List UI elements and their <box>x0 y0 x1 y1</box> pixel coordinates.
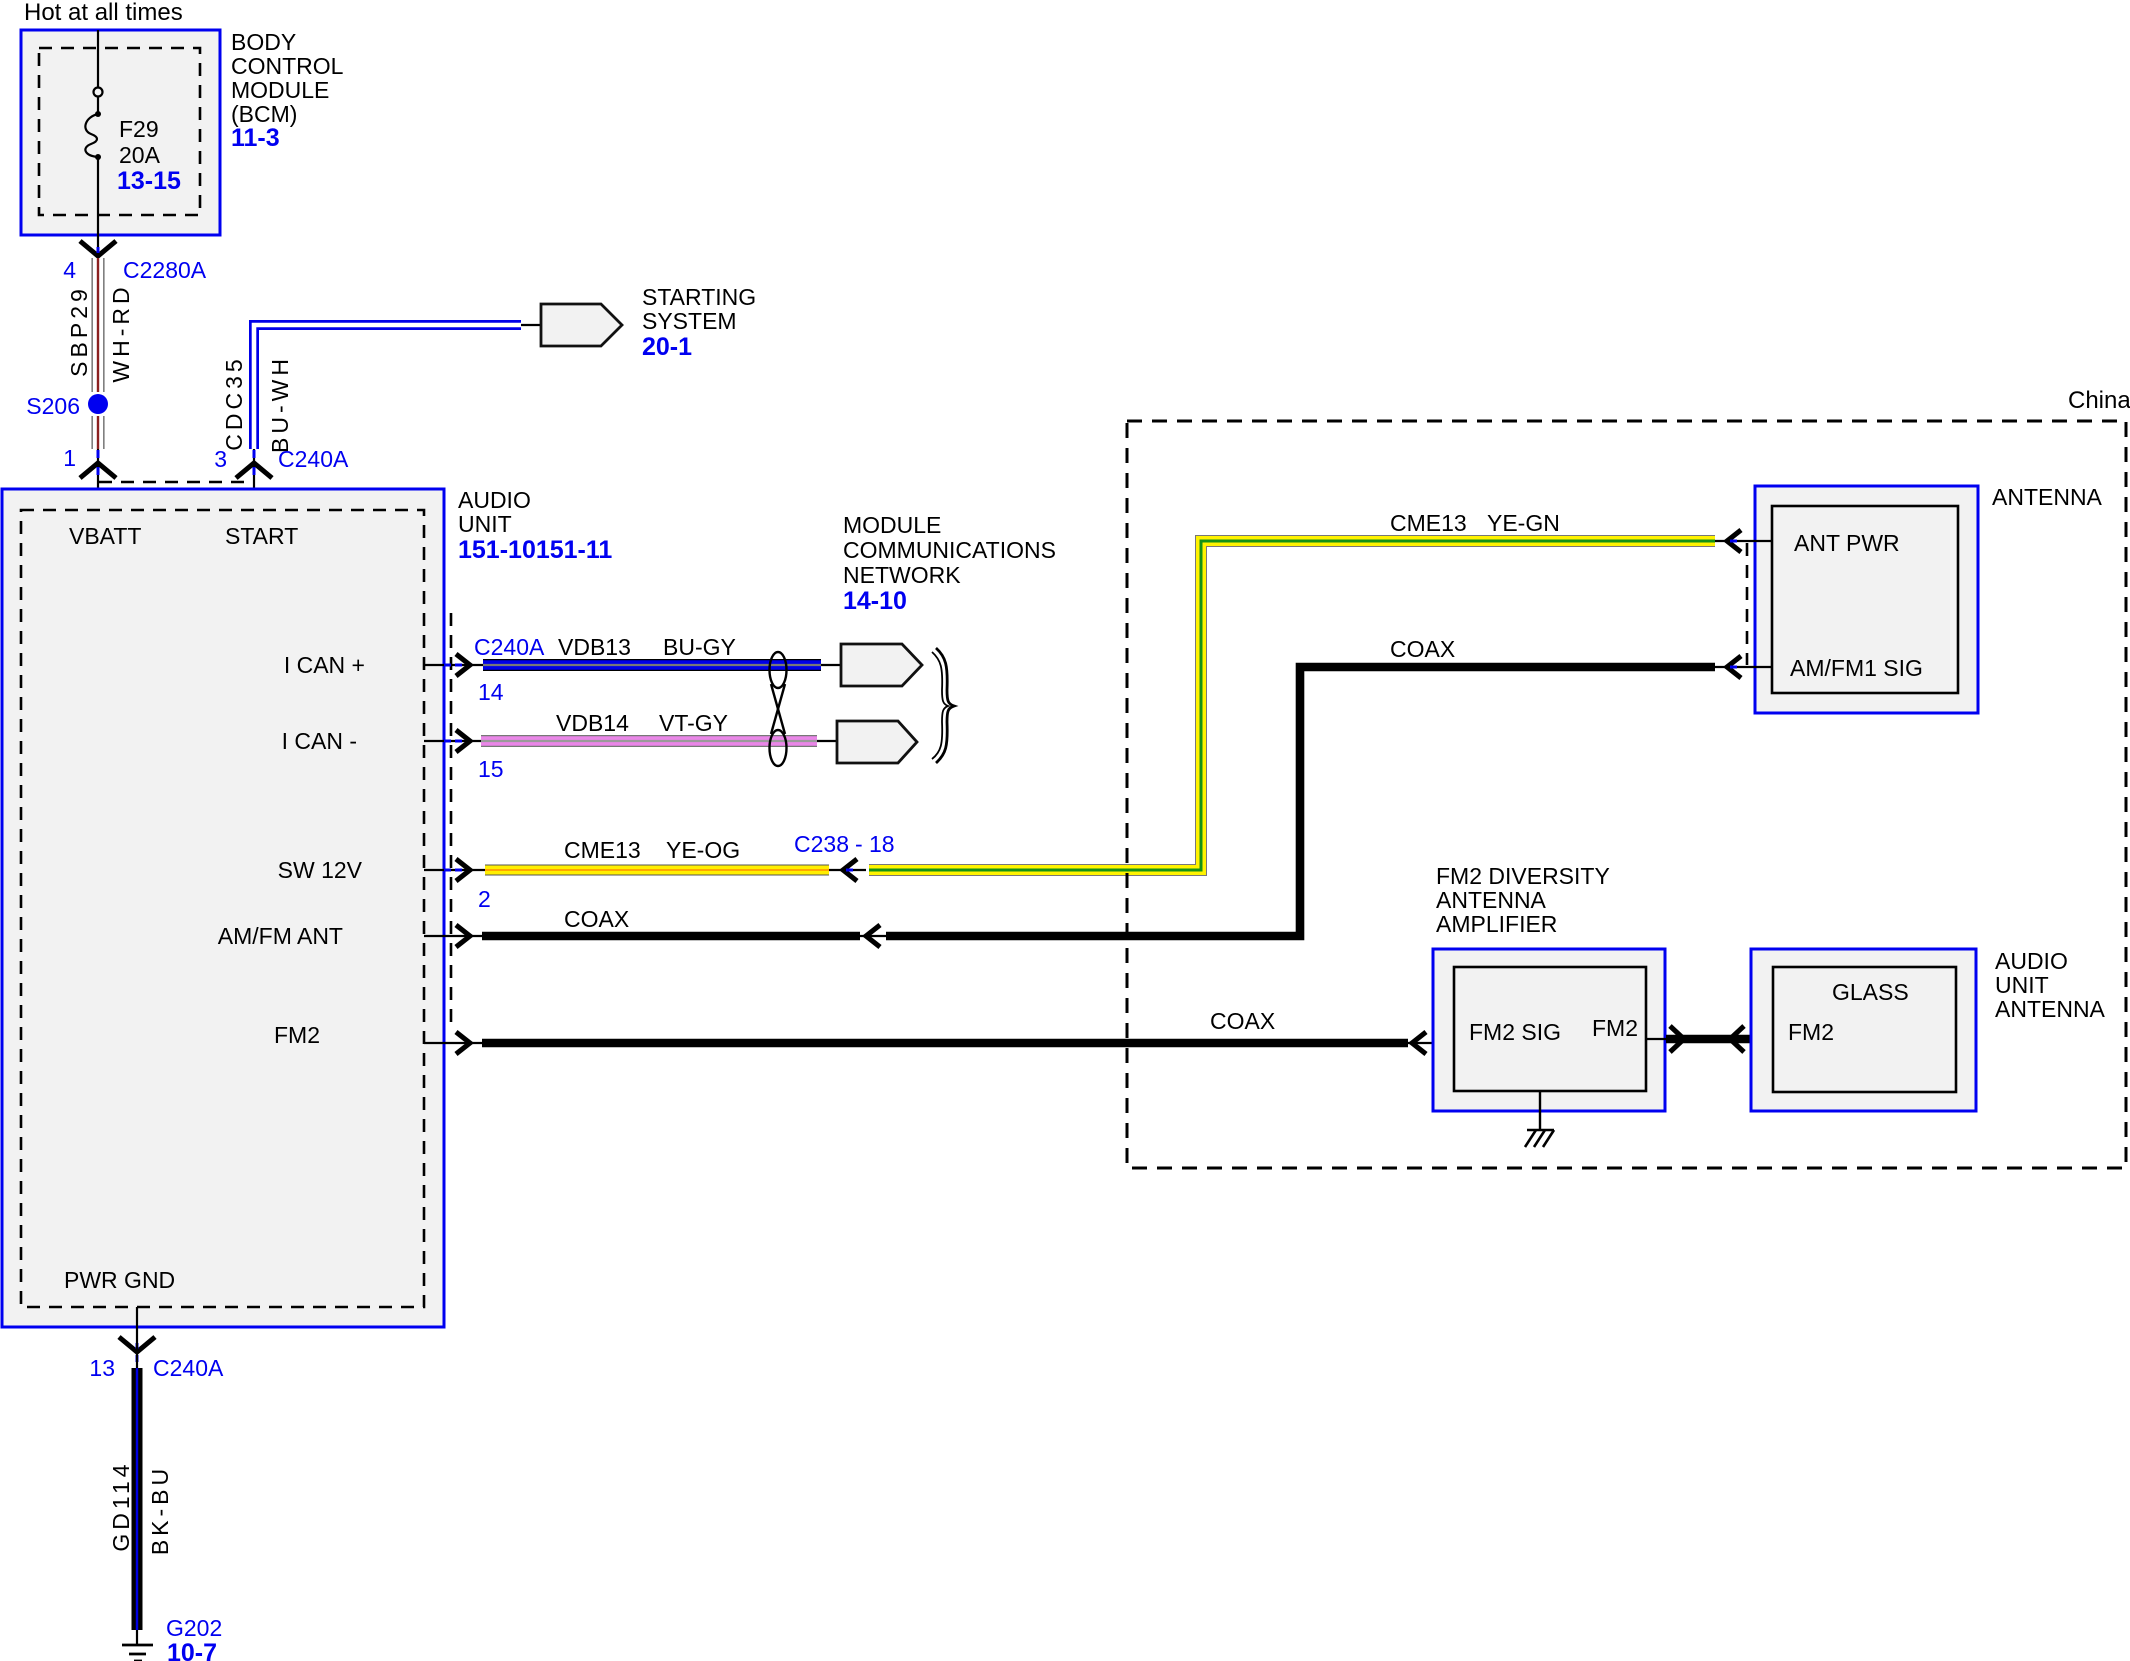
svg-text:MODULE: MODULE <box>231 77 329 103</box>
svg-text:FM2: FM2 <box>1788 1019 1834 1045</box>
connector C2280A arrow (down) <box>80 241 116 266</box>
svg-text:14: 14 <box>478 679 504 705</box>
svg-text:I CAN -: I CAN - <box>282 728 357 754</box>
wire CME13 YE-OG (yellow/orange) <box>485 865 829 876</box>
wire: hot feed into BCM <box>97 30 99 88</box>
svg-text:I CAN +: I CAN + <box>284 652 365 678</box>
svg-text:S206: S206 <box>26 393 80 419</box>
wire COAX from AM/FM ANT <box>482 932 860 941</box>
svg-text:VT-GY: VT-GY <box>659 710 728 736</box>
svg-text:3: 3 <box>214 446 227 472</box>
connector C240A pin 13 arrow (down) <box>119 1337 155 1368</box>
junction arrow C238-18 <box>829 859 866 881</box>
audio unit antenna (glass) box <box>1751 949 1976 1111</box>
svg-text:VDB13: VDB13 <box>558 634 631 660</box>
svg-text:20-1: 20-1 <box>642 333 692 361</box>
audio unit box <box>2 489 444 1327</box>
svg-text:13-15: 13-15 <box>117 167 181 195</box>
ground symbol G202 <box>122 1645 153 1661</box>
pin stub SW 12V with arrow <box>424 859 485 881</box>
labels CME13 YE-GN (top) <box>1390 510 1560 536</box>
junction arrow at FM2 SIG <box>1408 1032 1454 1054</box>
connector C240A dashed line right of audio unit <box>450 613 453 1030</box>
svg-text:13: 13 <box>89 1355 115 1381</box>
svg-text:VBATT: VBATT <box>69 523 141 549</box>
off-page connector: module communications network (upper) <box>841 644 922 686</box>
pin stub AM/FM ANT with arrow <box>424 925 482 947</box>
text FM2 DIVERSITY ANTENNA AMPLIFIER <box>1436 863 1610 937</box>
lead to starting system off-page connector <box>521 324 541 326</box>
svg-text:AM/FM1 SIG: AM/FM1 SIG <box>1790 655 1923 681</box>
labels C240A VDB13 BU-GY 14 <box>474 634 736 705</box>
svg-text:START: START <box>225 523 298 549</box>
svg-text:STARTING: STARTING <box>642 284 756 310</box>
svg-text:CME13: CME13 <box>564 837 641 863</box>
svg-text:FM2 SIG: FM2 SIG <box>1469 1019 1561 1045</box>
lead from BU-WH into audio unit <box>253 449 255 510</box>
svg-text:14-10: 14-10 <box>843 587 907 615</box>
twisted pair symbol <box>770 652 787 766</box>
wire VDB14 VT-GY (violet/gray) <box>481 735 817 747</box>
wire GD114 BK-BU (black/blue) <box>132 1368 143 1630</box>
svg-text:ANTENNA: ANTENNA <box>1995 996 2106 1022</box>
antenna box <box>1755 486 1978 713</box>
svg-text:YE-GN: YE-GN <box>1487 510 1560 536</box>
svg-text:COMMUNICATIONS: COMMUNICATIONS <box>843 537 1056 563</box>
svg-text:G202: G202 <box>166 1615 222 1641</box>
svg-text:SYSTEM: SYSTEM <box>642 308 737 334</box>
arrow into AM/FM1 SIG <box>1715 656 1772 678</box>
svg-text:FM2: FM2 <box>274 1022 320 1048</box>
wire CME13 YE-GN (yellow/green) from C238 to antenna <box>869 541 1715 870</box>
svg-text:11-3: 11-3 <box>231 124 280 152</box>
svg-text:CDC35: CDC35 <box>221 355 247 450</box>
off-page connector: module communications network (lower) <box>837 721 917 763</box>
wire: fuse output down to C2280A <box>97 157 99 244</box>
fuse F29 20A <box>85 88 102 161</box>
text G202 10-7 <box>166 1615 222 1661</box>
svg-text:YE-OG: YE-OG <box>666 837 740 863</box>
svg-text:15: 15 <box>478 756 504 782</box>
svg-text:COAX: COAX <box>1390 636 1455 662</box>
svg-text:FM2: FM2 <box>1592 1015 1638 1041</box>
text AUDIO UNIT ANTENNA <box>1995 948 2106 1022</box>
junction arrow on AM/FM coax <box>860 925 886 947</box>
labels CME13 YE-OG C238-18 2 <box>478 831 895 912</box>
svg-text:C240A: C240A <box>153 1355 224 1381</box>
svg-text:BK-BU: BK-BU <box>147 1465 173 1555</box>
wire VDB13 BU-GY (blue/gray) <box>483 659 821 671</box>
svg-text:COAX: COAX <box>1210 1008 1275 1034</box>
FM2 diversity antenna amplifier box <box>1433 949 1665 1111</box>
text: pin 13 / connector C240A (bottom) <box>89 1355 224 1381</box>
svg-text:China: China <box>2068 387 2130 414</box>
svg-text:AMPLIFIER: AMPLIFIER <box>1436 911 1557 937</box>
svg-text:FM2 DIVERSITY: FM2 DIVERSITY <box>1436 863 1610 889</box>
arrow into ANT PWR <box>1715 530 1772 552</box>
wire CDC35 BU-WH (double blue) to starting system <box>254 325 521 449</box>
svg-text:ANT PWR: ANT PWR <box>1794 530 1900 556</box>
antenna connector dashed line <box>1746 543 1749 665</box>
text: pin 3 / connector C240A <box>214 446 349 472</box>
svg-text:UNIT: UNIT <box>458 511 512 537</box>
China dashed box <box>1127 421 2126 1168</box>
svg-text:-: - <box>855 831 863 857</box>
svg-text:C240A: C240A <box>278 446 349 472</box>
svg-text:Hot at all times: Hot at all times <box>24 0 183 26</box>
lead to ground G202 <box>136 1630 138 1645</box>
PWR GND lead out of audio unit <box>136 1307 138 1340</box>
svg-text:PWR GND: PWR GND <box>64 1267 175 1293</box>
fuse value labels F29 20A 13-15 <box>117 116 181 195</box>
text STARTING SYSTEM 20-1 <box>642 284 756 361</box>
svg-text:10-7: 10-7 <box>167 1639 217 1661</box>
svg-text:GLASS: GLASS <box>1832 979 1909 1005</box>
svg-text:4: 4 <box>63 257 76 283</box>
svg-text:C240A: C240A <box>474 634 545 660</box>
pin stub FM2 with arrow <box>424 1032 482 1054</box>
svg-text:COAX: COAX <box>564 906 629 932</box>
svg-text:F29: F29 <box>119 116 159 142</box>
svg-text:151-10151-11: 151-10151-11 <box>458 536 612 564</box>
pin stub I CAN + with arrow <box>424 654 483 676</box>
labels VDB14 VT-GY 15 <box>478 710 728 782</box>
text: pin 4 / connector C2280A <box>63 257 207 283</box>
svg-text:1: 1 <box>63 445 76 471</box>
svg-text:CONTROL: CONTROL <box>231 53 344 79</box>
svg-text:NETWORK: NETWORK <box>843 562 961 588</box>
svg-text:GD114: GD114 <box>108 1460 134 1551</box>
svg-text:BU-GY: BU-GY <box>663 634 736 660</box>
svg-text:SBP29: SBP29 <box>66 285 92 377</box>
body control module (BCM) box <box>21 30 220 235</box>
ground stub from amplifier <box>1539 1091 1541 1130</box>
BCM title text <box>231 29 344 152</box>
lead to off-page connector row 15 <box>817 740 837 742</box>
bundle brace <box>932 648 954 763</box>
connector C240A pin 3 arrow (up) <box>236 450 272 478</box>
svg-text:ANTENNA: ANTENNA <box>1436 887 1547 913</box>
svg-text:C238: C238 <box>794 831 849 857</box>
svg-text:18: 18 <box>869 831 895 857</box>
svg-text:WH-RD: WH-RD <box>108 283 134 382</box>
svg-text:BU-WH: BU-WH <box>267 355 293 453</box>
splice S206 <box>26 393 108 419</box>
link wire between amplifier FM2 and glass FM2 <box>1646 1026 1773 1052</box>
svg-text:SW 12V: SW 12V <box>278 857 363 883</box>
connector C240A pin 1 arrow (up) <box>80 450 116 478</box>
dashed connector line between pin 1 and pin 3 <box>99 481 247 484</box>
text AUDIO UNIT 151-10151-11 <box>458 487 612 564</box>
pin stub I CAN - with arrow <box>424 730 481 752</box>
svg-text:AM/FM ANT: AM/FM ANT <box>218 923 343 949</box>
svg-text:ANTENNA: ANTENNA <box>1992 484 2103 510</box>
off-page connector: starting system <box>541 304 622 346</box>
chassis ground symbol <box>1525 1130 1554 1147</box>
svg-text:VDB14: VDB14 <box>556 710 629 736</box>
svg-text:2: 2 <box>478 886 491 912</box>
svg-text:UNIT: UNIT <box>1995 972 2049 998</box>
svg-text:CME13: CME13 <box>1390 510 1467 536</box>
svg-text:AUDIO: AUDIO <box>1995 948 2068 974</box>
wire COAX continuing to antenna AM/FM1 SIG <box>886 667 1715 936</box>
svg-text:MODULE: MODULE <box>843 512 941 538</box>
lead to off-page connector row 14 <box>821 664 841 666</box>
wire COAX FM2 to diversity amplifier <box>482 1039 1408 1048</box>
svg-text:20A: 20A <box>119 142 161 168</box>
svg-text:AUDIO: AUDIO <box>458 487 531 513</box>
lead from WH-RD into audio unit <box>97 449 99 510</box>
svg-text:C2280A: C2280A <box>123 257 207 283</box>
wire SBP29 WH-RD (white-red) <box>92 258 105 449</box>
text MODULE COMMUNICATIONS NETWORK 14-10 <box>843 512 1056 615</box>
svg-text:BODY: BODY <box>231 29 296 55</box>
